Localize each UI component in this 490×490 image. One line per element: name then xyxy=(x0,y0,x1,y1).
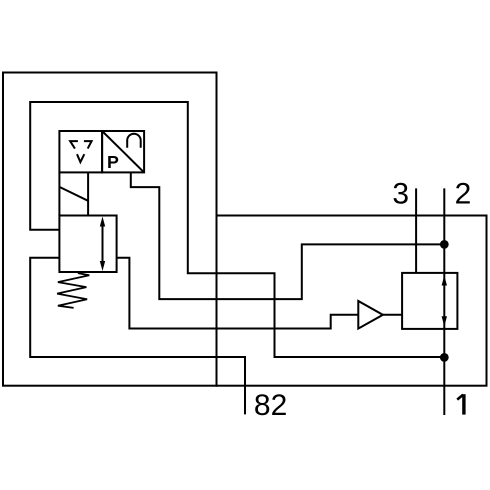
svg-text:3: 3 xyxy=(392,177,409,210)
svg-text:2: 2 xyxy=(455,177,472,210)
wire feedback loop from pilot valve to node on line 2 xyxy=(30,102,444,357)
pressure sensor box B1 xyxy=(102,131,144,172)
wire sensor to node on line 2 xyxy=(131,172,445,299)
display module box U1 xyxy=(59,131,102,172)
wire pilot output to amplifier xyxy=(117,258,359,329)
node junction lower xyxy=(440,353,449,362)
wire pilot exhaust to port 82 xyxy=(30,258,245,415)
svg-text:P: P xyxy=(107,152,119,172)
svg-text:82: 82 xyxy=(254,389,287,422)
sensor diagonal xyxy=(102,131,144,172)
proportional triangle symbol xyxy=(70,141,92,162)
enclosure right section xyxy=(217,216,487,386)
main regulator box V2 xyxy=(402,273,457,329)
spring xyxy=(57,273,89,308)
port 2 to port 1 line xyxy=(443,188,445,415)
proportional solenoid Y1 xyxy=(59,172,88,215)
pilot valve body V1 xyxy=(59,216,116,273)
pilot valve stroke arrow xyxy=(100,217,105,272)
node junction upper xyxy=(440,240,449,249)
sensor dome symbol xyxy=(127,134,141,148)
label 1 xyxy=(457,394,464,414)
port 3 line xyxy=(415,188,417,273)
amplifier A1 xyxy=(358,301,383,329)
main regulator stroke arrow xyxy=(442,276,447,327)
enclosure left section xyxy=(3,73,217,386)
wire amplifier output xyxy=(383,314,402,316)
